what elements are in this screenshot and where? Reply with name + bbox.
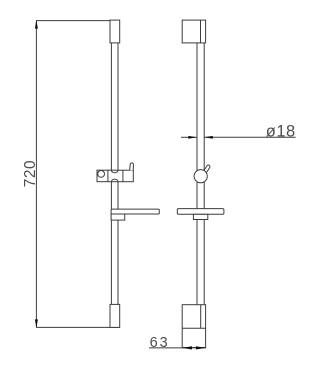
svg-text:ø18: ø18	[266, 123, 296, 141]
arrow right (o18 left)	[188, 136, 197, 139]
right top bracket inner edge	[200, 20, 202, 43]
right bottom wall bracket	[182, 305, 205, 348]
slider body left view	[97, 170, 133, 182]
arrow left (o18 right)	[204, 136, 213, 139]
arrow down (720 bottom)	[35, 319, 38, 328]
soap dish bracket left view	[111, 214, 125, 220]
dimension 720 vertical line	[35, 21, 37, 328]
arrow up (720 top)	[35, 20, 38, 29]
right bottom bracket inner vertical edge	[200, 305, 202, 329]
soap dish right view	[177, 209, 224, 215]
soap dish bracket right view	[193, 214, 207, 219]
slider knob circle left view	[98, 171, 105, 178]
right top wall bracket	[182, 20, 205, 43]
dimension 720 extension line top	[36, 20, 110, 22]
soap dish left view	[111, 209, 159, 214]
left rail tube	[110, 43, 112, 305]
svg-text:63: 63	[150, 335, 170, 351]
left top wall bracket	[110, 20, 120, 43]
slider clamp notch top	[111, 170, 118, 173]
slider hook stub right view	[202, 164, 210, 174]
svg-text:720: 720	[22, 160, 39, 187]
left bottom wall bracket	[110, 304, 120, 327]
slider hook stub left view	[130, 163, 134, 170]
slider divider left	[107, 170, 109, 182]
right bottom bracket mid line	[182, 327, 205, 329]
dimension o18 left segment	[181, 136, 197, 138]
slider clamp notch bottom	[111, 179, 118, 182]
dimension 63 line	[149, 347, 206, 349]
slider divider right	[122, 170, 124, 182]
right rail tube	[196, 43, 198, 305]
arrow right (63 right)	[196, 346, 206, 349]
arrow left (63 left)	[182, 346, 192, 349]
dimension o18 right segment	[204, 136, 296, 138]
slider knob circle right view	[194, 170, 207, 183]
dimension 720 extension line bottom	[36, 326, 119, 328]
